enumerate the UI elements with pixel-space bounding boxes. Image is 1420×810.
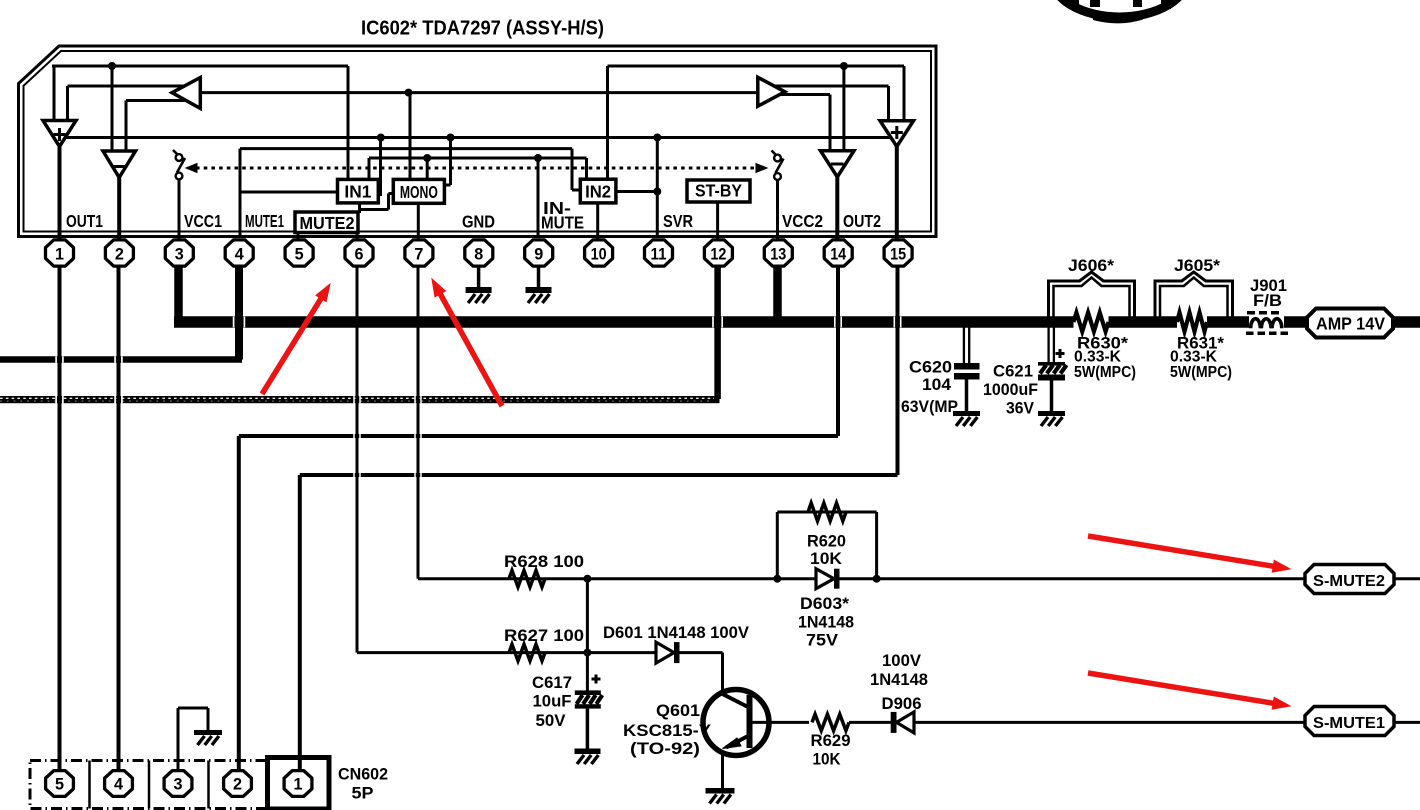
svg-text:2: 2: [115, 244, 124, 263]
svg-text:10uF: 10uF: [533, 693, 572, 711]
svg-text:0.33-K: 0.33-K: [1170, 349, 1218, 366]
svg-text:5P: 5P: [352, 784, 374, 803]
svg-text:8: 8: [474, 244, 483, 263]
svg-text:MONO: MONO: [400, 182, 438, 202]
svg-text:R628 100: R628 100: [504, 553, 584, 571]
svg-text:J605*: J605*: [1174, 257, 1221, 275]
svg-text:5W(MPC): 5W(MPC): [1074, 364, 1136, 381]
svg-text:1: 1: [294, 775, 303, 794]
svg-text:4: 4: [114, 775, 124, 794]
svg-text:OUT2: OUT2: [843, 211, 881, 231]
svg-text:104: 104: [922, 376, 952, 394]
svg-text:6: 6: [355, 244, 364, 263]
svg-text:15: 15: [890, 244, 906, 263]
svg-text:R629: R629: [811, 732, 851, 750]
svg-text:50V: 50V: [536, 712, 566, 730]
svg-text:5: 5: [55, 775, 64, 794]
svg-text:7: 7: [414, 244, 423, 263]
svg-text:CN602: CN602: [338, 765, 388, 784]
svg-text:36V: 36V: [1006, 400, 1034, 418]
svg-text:D906: D906: [882, 695, 922, 713]
svg-text:1N4148: 1N4148: [870, 671, 928, 689]
svg-text:SVR: SVR: [663, 211, 693, 231]
svg-text:5: 5: [295, 244, 304, 263]
svg-text:KSC815-Y: KSC815-Y: [623, 722, 711, 740]
svg-text:9: 9: [534, 244, 543, 263]
svg-text:R627 100: R627 100: [504, 627, 584, 645]
svg-text:AMP 14V: AMP 14V: [1316, 314, 1385, 334]
svg-text:4: 4: [235, 244, 245, 263]
svg-text:S-MUTE2: S-MUTE2: [1313, 573, 1385, 590]
svg-text:1N4148: 1N4148: [798, 614, 854, 632]
svg-text:F/B: F/B: [1253, 292, 1282, 310]
svg-text:D601 1N4148 100V: D601 1N4148 100V: [603, 624, 749, 642]
svg-text:MUTE2: MUTE2: [300, 213, 355, 233]
svg-text:J606*: J606*: [1068, 257, 1115, 275]
svg-text:(TO-92): (TO-92): [630, 740, 700, 758]
svg-text:ST-BY: ST-BY: [695, 181, 742, 201]
svg-text:MUTE1: MUTE1: [245, 211, 284, 231]
svg-text:S-MUTE1: S-MUTE1: [1313, 715, 1385, 732]
svg-text:D603*: D603*: [800, 595, 850, 613]
svg-text:11: 11: [651, 244, 667, 263]
svg-text:VCC1: VCC1: [184, 211, 222, 231]
svg-text:1: 1: [55, 244, 64, 263]
svg-text:C617: C617: [532, 674, 572, 692]
svg-text:14: 14: [830, 244, 846, 263]
svg-text:63V(MP: 63V(MP: [901, 398, 958, 416]
svg-text:3: 3: [175, 244, 184, 263]
svg-text:10K: 10K: [810, 550, 842, 568]
svg-text:IN1: IN1: [344, 181, 371, 201]
svg-text:R620: R620: [807, 533, 846, 551]
svg-text:VCC2: VCC2: [782, 211, 823, 231]
svg-text:C620: C620: [909, 359, 952, 377]
svg-text:5W(MPC): 5W(MPC): [1170, 364, 1232, 381]
svg-text:Q601: Q601: [656, 702, 700, 720]
svg-text:13: 13: [770, 244, 786, 263]
svg-text:OUT1: OUT1: [66, 211, 103, 231]
svg-text:3: 3: [174, 775, 183, 794]
svg-text:MUTE: MUTE: [541, 213, 584, 233]
svg-text:100V: 100V: [882, 652, 921, 670]
svg-text:GND: GND: [462, 212, 495, 232]
svg-text:2: 2: [233, 775, 242, 794]
svg-text:IN2: IN2: [585, 181, 611, 201]
svg-text:12: 12: [710, 244, 726, 263]
svg-text:C621: C621: [993, 363, 1033, 381]
svg-text:1000uF: 1000uF: [983, 381, 1038, 399]
svg-text:75V: 75V: [806, 632, 838, 650]
svg-text:0.33-K: 0.33-K: [1074, 349, 1122, 366]
svg-text:IC602* TDA7297 (ASSY-H/S): IC602* TDA7297 (ASSY-H/S): [361, 16, 604, 39]
svg-text:10K: 10K: [813, 751, 841, 769]
svg-text:10: 10: [591, 244, 607, 263]
